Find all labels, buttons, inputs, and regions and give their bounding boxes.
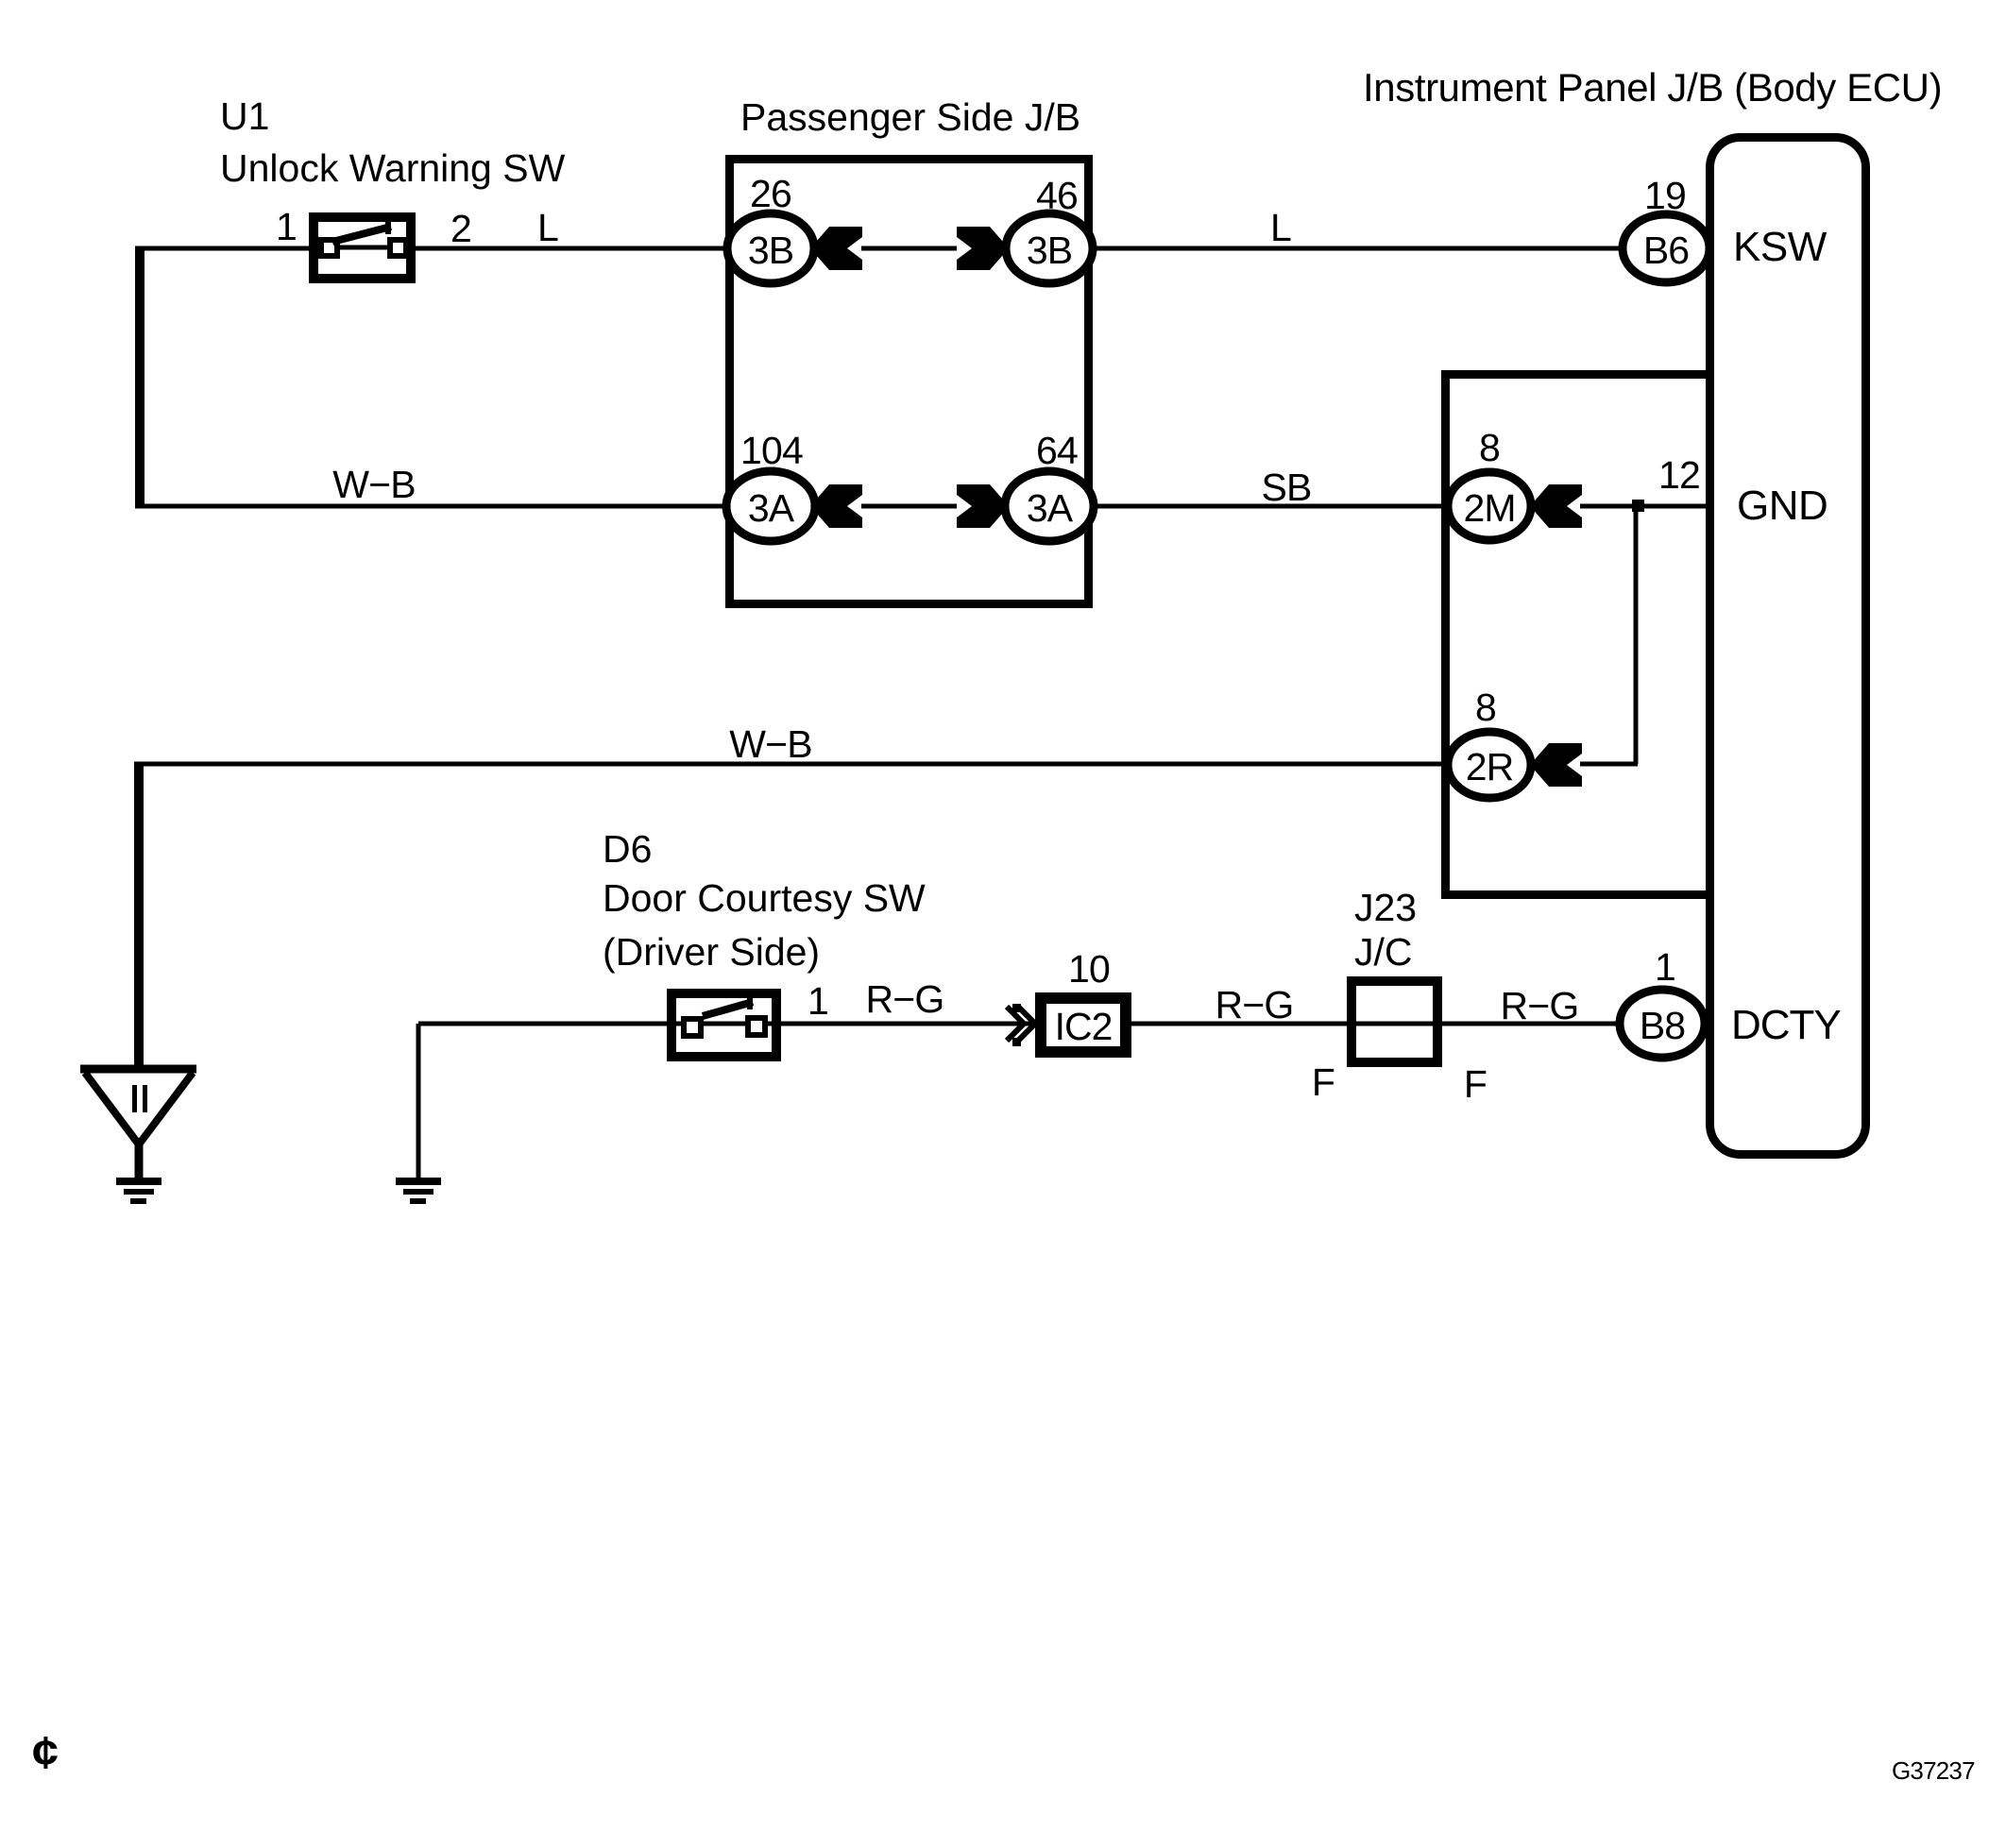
connector oval 3A right	[1005, 471, 1094, 541]
wire W-B row from U1 pin1 down and to 3A, and SB row to 2M	[135, 504, 1706, 509]
svg-text:B6: B6	[1643, 229, 1689, 272]
wire vertical to noise filter ground	[134, 764, 144, 1069]
wire vertical from GND junction dot down to 2R arrow	[1634, 508, 1639, 764]
junction connector J23 J/C box	[1351, 981, 1437, 1062]
arrow at 3A left	[810, 484, 862, 528]
wire DCTY row: courtesy switch to IC2, J/C and B8	[418, 1022, 1620, 1026]
svg-text:104: 104	[740, 429, 803, 472]
switch D6 terminal 1	[748, 1018, 765, 1035]
connector oval 3B left	[727, 213, 814, 283]
svg-text:F: F	[1464, 1062, 1487, 1106]
switch D6 box	[671, 993, 776, 1057]
wire stem below triangle	[135, 1138, 144, 1181]
wire L row from switch U1 to junction block	[135, 246, 1624, 251]
ground symbol left	[116, 1178, 161, 1185]
connector sub-box holding 2M and 2R	[1446, 375, 1710, 895]
svg-text:8: 8	[1479, 426, 1500, 469]
node junction dot 12/GND	[1632, 500, 1644, 512]
switch U1 blade	[332, 227, 391, 242]
svg-text:U1: U1	[220, 94, 269, 138]
connector oval 2R	[1448, 732, 1531, 798]
arrow at 2M	[1530, 484, 1582, 528]
arrow at 3A right	[957, 484, 1009, 528]
connector box IC2	[1041, 998, 1126, 1052]
svg-text:3A: 3A	[1027, 486, 1074, 530]
svg-text:8: 8	[1475, 686, 1496, 729]
svg-text:1: 1	[276, 205, 297, 248]
connector oval 3B right	[1006, 213, 1093, 283]
svg-text:12: 12	[1658, 453, 1700, 497]
svg-text:(Driver Side): (Driver Side)	[603, 930, 820, 974]
svg-text:Door Courtesy SW: Door Courtesy SW	[603, 876, 926, 920]
svg-text:J23: J23	[1354, 886, 1417, 929]
connector oval B8	[1620, 990, 1705, 1058]
svg-text:2: 2	[450, 207, 471, 250]
arrow at 3B left	[810, 227, 862, 270]
connector oval B6	[1623, 214, 1709, 282]
svg-text:10: 10	[1068, 947, 1110, 991]
ground symbol courtesy switch	[396, 1178, 441, 1185]
svg-text:F: F	[1312, 1060, 1334, 1104]
svg-text:R−G: R−G	[1500, 984, 1578, 1027]
svg-text:KSW: KSW	[1733, 224, 1827, 270]
svg-text:2R: 2R	[1466, 745, 1513, 788]
wire through D6	[671, 1022, 776, 1026]
switch D6 blade	[703, 1002, 753, 1016]
svg-text:26: 26	[750, 172, 791, 215]
svg-text:L: L	[537, 206, 558, 249]
switch U1 terminal pin 2	[390, 240, 406, 256]
switch U1 box	[314, 217, 411, 279]
svg-text:Unlock Warning SW: Unlock Warning SW	[220, 146, 566, 190]
svg-text:2M: 2M	[1464, 486, 1516, 530]
svg-text:SB: SB	[1261, 466, 1311, 509]
arrow at 2R	[1530, 743, 1582, 787]
svg-text:1: 1	[1655, 945, 1675, 989]
svg-text:3A: 3A	[748, 486, 795, 530]
svg-text:Passenger Side J/B: Passenger Side J/B	[740, 95, 1080, 139]
svg-text:W−B: W−B	[729, 722, 812, 766]
svg-text:J/C: J/C	[1354, 930, 1413, 974]
ECU body: Instrument Panel J/B (Body ECU) rounded box	[1710, 138, 1866, 1155]
svg-text:¢: ¢	[32, 1728, 59, 1778]
svg-text:Instrument Panel J/B (Body ECU: Instrument Panel J/B (Body ECU)	[1363, 65, 1942, 110]
connector oval 3A left	[726, 471, 815, 541]
svg-text:W−B: W−B	[332, 463, 416, 506]
in-line connector chevron before IC2	[1007, 1007, 1035, 1041]
ground noise filter triangle	[80, 1069, 196, 1144]
wire through U1	[314, 246, 411, 250]
svg-text:1: 1	[807, 979, 828, 1023]
svg-text:3B: 3B	[1027, 229, 1072, 272]
svg-text:D6: D6	[603, 827, 652, 871]
arrow at 3B right	[957, 227, 1009, 270]
svg-text:G37237: G37237	[1892, 1756, 1975, 1785]
wire vertical from courtesy switch to ground	[416, 1024, 421, 1179]
switch D6 terminal left	[684, 1019, 701, 1036]
svg-text:R−G: R−G	[865, 977, 943, 1021]
svg-text:DCTY: DCTY	[1731, 1002, 1841, 1048]
switch U1 terminal pin 1	[321, 240, 337, 256]
svg-text:R−G: R−G	[1215, 983, 1293, 1026]
svg-text:3B: 3B	[748, 229, 793, 272]
connector oval 2M	[1448, 472, 1531, 540]
wire vertical from U1 pin1	[135, 248, 144, 506]
svg-text:IC2: IC2	[1055, 1005, 1113, 1048]
junction block Passenger Side J/B box	[730, 160, 1089, 604]
svg-text:64: 64	[1036, 429, 1078, 472]
wire long W-B row to 2R	[134, 762, 1638, 767]
svg-text:GND: GND	[1737, 483, 1827, 529]
svg-text:B8: B8	[1640, 1004, 1685, 1047]
svg-text:L: L	[1270, 206, 1291, 249]
